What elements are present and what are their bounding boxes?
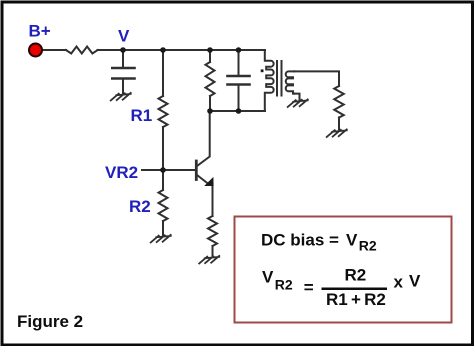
capacitor C-tank xyxy=(238,50,240,76)
svg-text:Figure 2: Figure 2 xyxy=(17,312,83,331)
resistor R-series (horizontal) xyxy=(66,47,98,54)
wire tank bottom rail xyxy=(210,110,265,112)
svg-text:R1: R1 xyxy=(131,106,153,125)
svg-text:R2: R2 xyxy=(345,266,367,285)
resistor R2 xyxy=(162,170,164,190)
transformer T1 phase dot xyxy=(261,69,264,72)
transformer T1 secondary xyxy=(286,71,294,93)
transistor Q1 emitter arrow xyxy=(204,177,213,186)
svg-text:V: V xyxy=(118,27,130,46)
ground (load) xyxy=(327,129,347,137)
junction tank cap bottom xyxy=(236,108,242,114)
svg-text:=: = xyxy=(304,278,314,297)
wire top rail xyxy=(98,49,266,51)
formula box xyxy=(235,217,452,323)
junction VR2 node xyxy=(160,167,166,173)
wire B+ to resistor xyxy=(42,49,66,51)
svg-text:V: V xyxy=(346,231,358,250)
resistor R1 xyxy=(159,96,168,127)
svg-text:DC bias =: DC bias = xyxy=(261,231,339,250)
svg-text:x: x xyxy=(394,273,404,292)
svg-text:V: V xyxy=(262,268,274,287)
resistor R-emitter xyxy=(208,216,217,246)
svg-text:R2: R2 xyxy=(129,197,151,216)
svg-text:V: V xyxy=(409,272,421,291)
junction R1 top xyxy=(160,47,166,53)
svg-text:R1 + R2: R1 + R2 xyxy=(326,290,386,309)
svg-text:R2: R2 xyxy=(359,238,377,254)
svg-text:B+: B+ xyxy=(29,22,51,41)
resistor R-load xyxy=(334,86,344,118)
junction tank resistor top xyxy=(207,47,213,53)
junction tank cap top xyxy=(236,47,242,53)
transistor Q1 xyxy=(195,161,198,180)
ground (secondary) xyxy=(288,99,308,107)
capacitor C-filter xyxy=(122,50,124,68)
resistor R-tank xyxy=(209,50,211,62)
transformer T1 primary xyxy=(265,50,274,111)
wire secondary top xyxy=(294,71,339,86)
wire VR2 label to base rail xyxy=(142,169,194,171)
ground (R2) xyxy=(151,235,171,243)
transformer T1 core xyxy=(276,61,278,96)
terminal B+ xyxy=(29,44,42,57)
wire R1 to VR2 node xyxy=(162,127,164,170)
wire secondary bottom to ground xyxy=(294,94,299,101)
svg-text:VR2: VR2 xyxy=(105,163,138,182)
svg-text:R2: R2 xyxy=(275,277,293,293)
junction tank resistor bottom xyxy=(207,108,213,114)
junction node V xyxy=(120,47,126,53)
ground (filter cap) xyxy=(111,93,131,101)
wire V node to R1 xyxy=(162,50,164,96)
ground (emitter) xyxy=(199,256,219,264)
